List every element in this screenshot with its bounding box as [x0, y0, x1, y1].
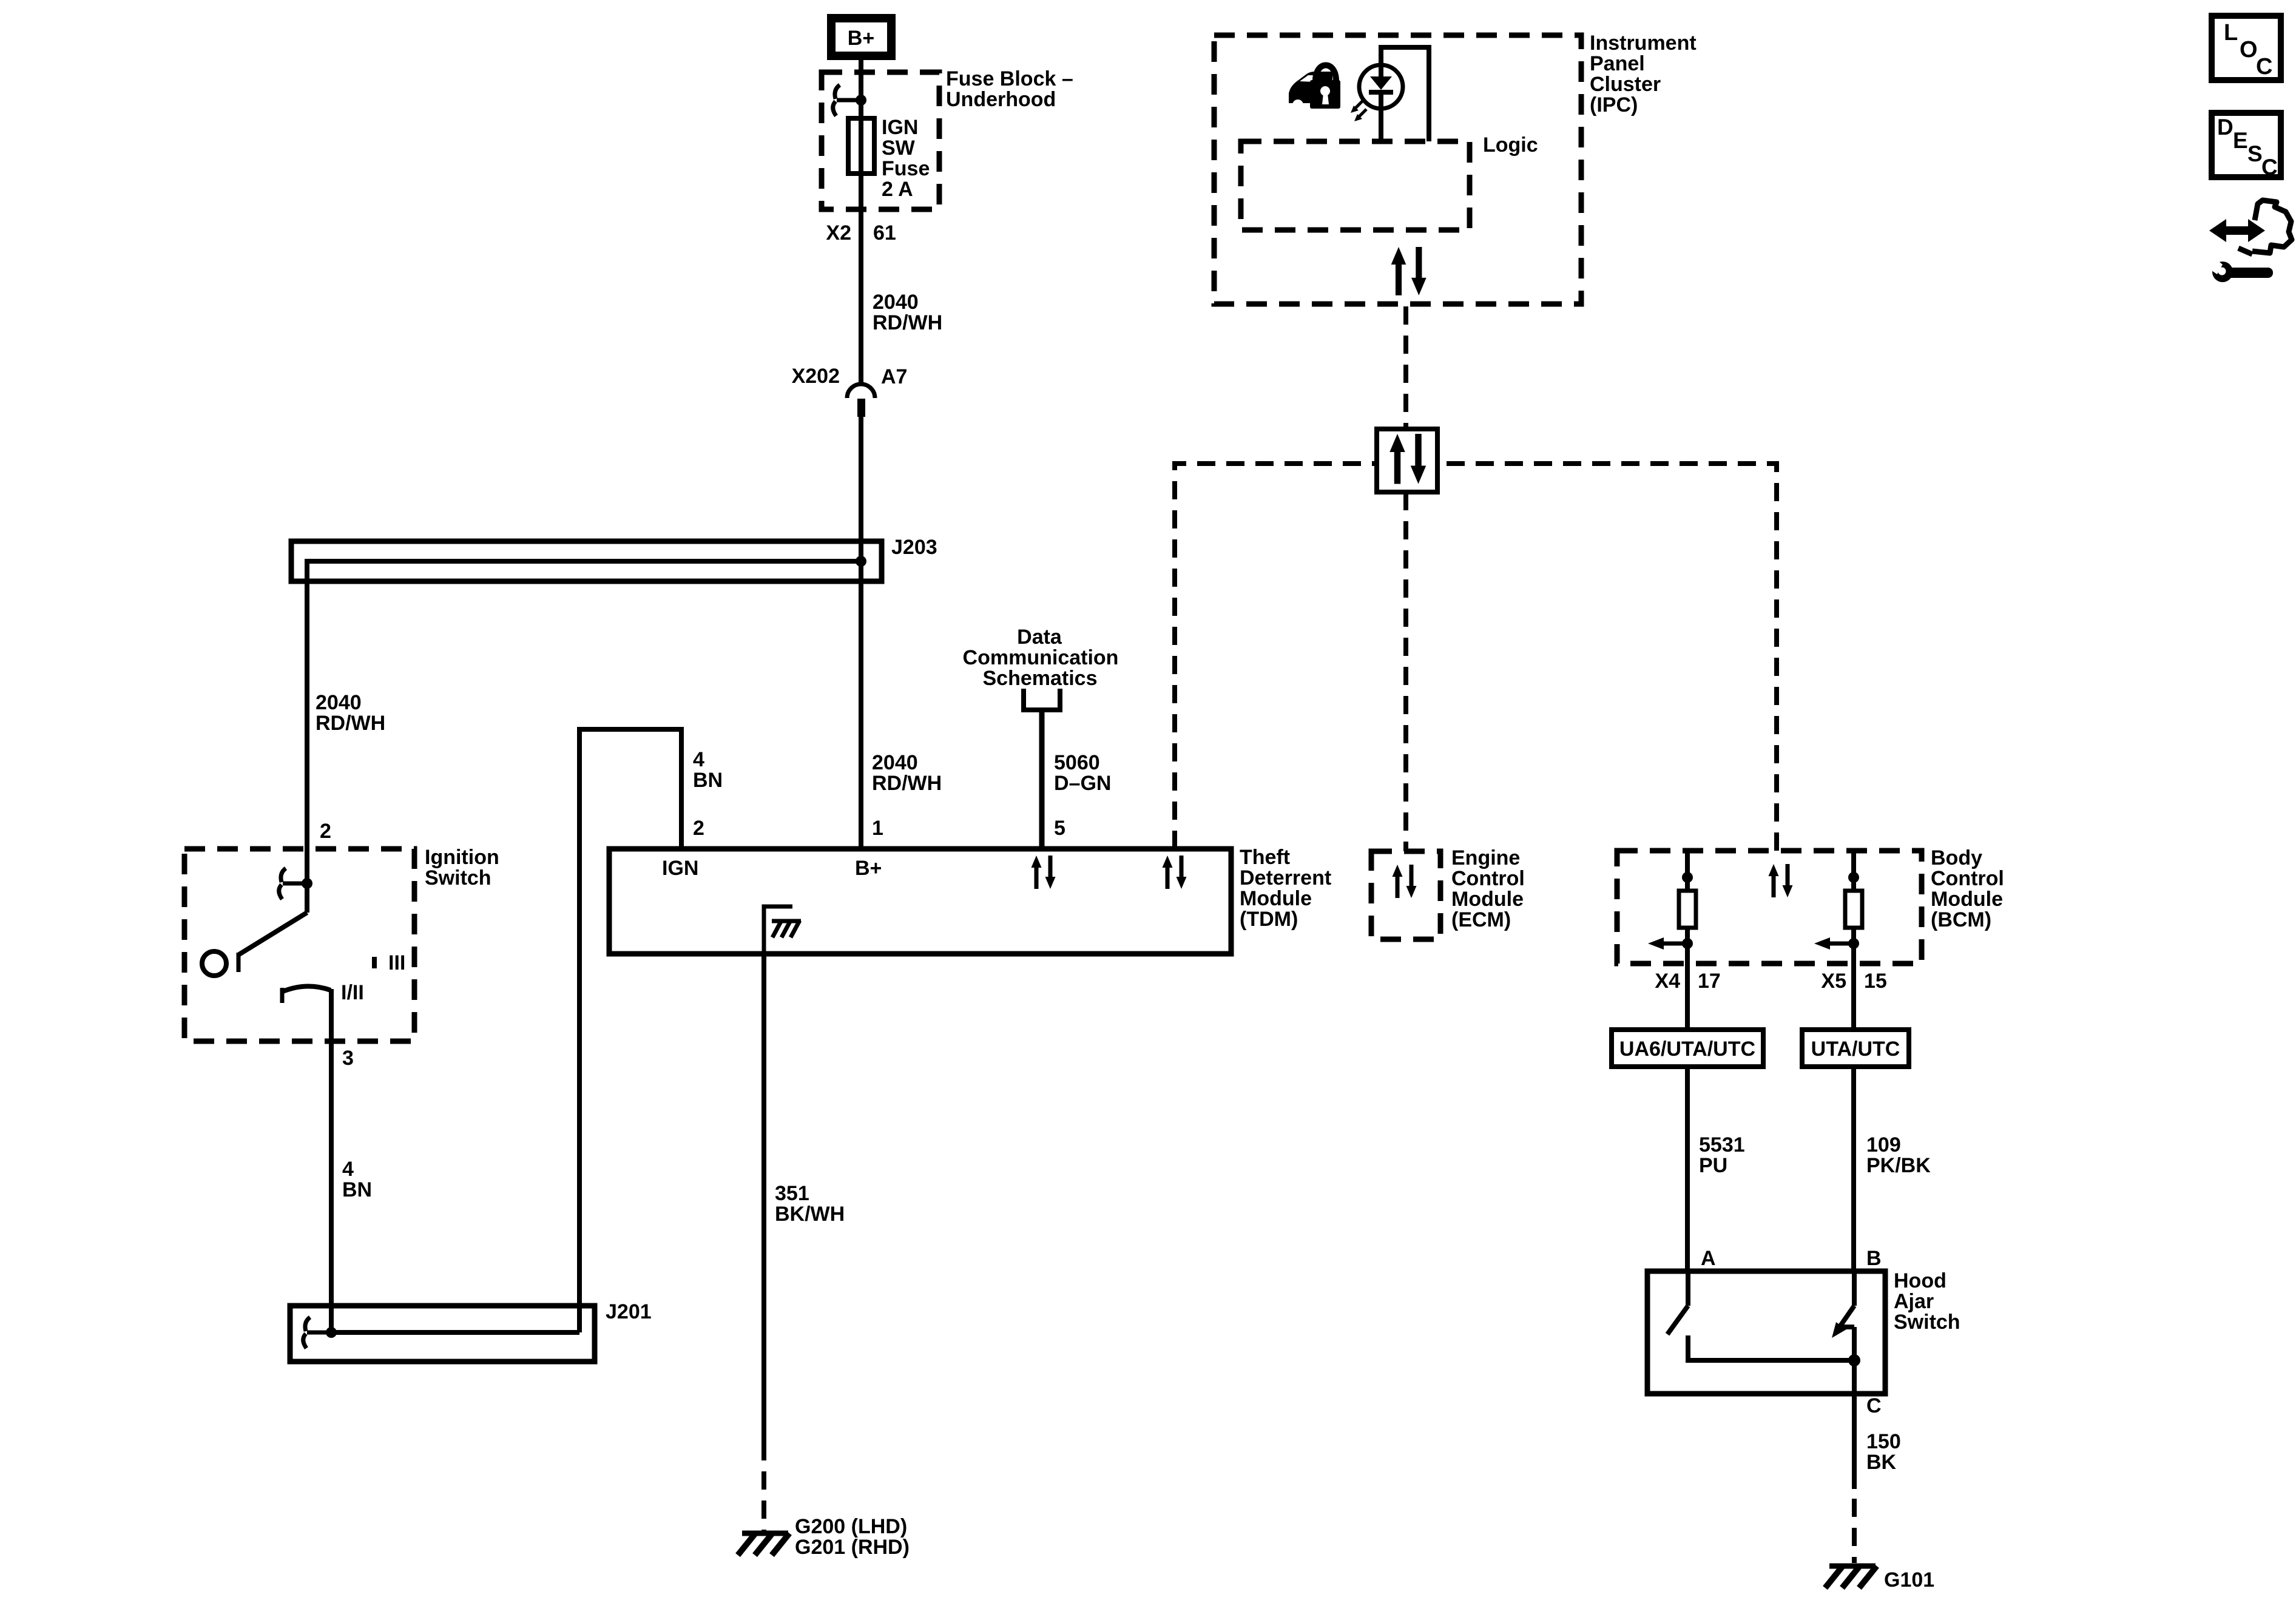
svg-text:J201: J201	[606, 1300, 652, 1323]
svg-text:RD/WH: RD/WH	[872, 772, 942, 795]
svg-text:Ajar: Ajar	[1894, 1290, 1934, 1313]
svg-text:5: 5	[1054, 817, 1065, 840]
svg-text:RD/WH: RD/WH	[316, 712, 385, 735]
svg-text:Instrument: Instrument	[1590, 32, 1697, 55]
svg-text:BN: BN	[693, 769, 723, 792]
svg-text:D–GN: D–GN	[1054, 772, 1111, 795]
svg-text:5531: 5531	[1699, 1133, 1745, 1156]
svg-text:4: 4	[693, 748, 704, 771]
svg-text:J203: J203	[891, 536, 937, 559]
svg-text:Underhood: Underhood	[946, 88, 1056, 111]
svg-text:(IPC): (IPC)	[1590, 93, 1638, 116]
svg-text:D: D	[2217, 115, 2234, 140]
svg-text:2: 2	[693, 817, 704, 840]
svg-text:Panel: Panel	[1590, 52, 1645, 75]
svg-text:Switch: Switch	[1894, 1311, 1960, 1334]
svg-text:B+: B+	[855, 857, 882, 880]
svg-text:C: C	[1866, 1394, 1882, 1417]
svg-text:L: L	[2224, 20, 2238, 46]
svg-text:5060: 5060	[1054, 751, 1100, 774]
svg-text:A: A	[1701, 1247, 1716, 1270]
svg-text:G101: G101	[1884, 1568, 1934, 1592]
svg-text:15: 15	[1864, 970, 1887, 993]
svg-text:Module: Module	[1240, 887, 1312, 910]
svg-text:Ignition: Ignition	[425, 846, 499, 869]
svg-text:3: 3	[342, 1047, 354, 1070]
svg-text:S: S	[2247, 141, 2263, 166]
svg-text:B+: B+	[848, 27, 874, 50]
svg-text:SW: SW	[882, 137, 916, 160]
svg-text:Logic: Logic	[1483, 133, 1538, 157]
svg-text:PK/BK: PK/BK	[1866, 1154, 1931, 1177]
svg-text:Control: Control	[1451, 867, 1525, 890]
svg-text:351: 351	[775, 1182, 809, 1205]
svg-text:2 A: 2 A	[882, 178, 913, 201]
svg-text:Module: Module	[1451, 888, 1524, 911]
svg-text:I/II: I/II	[341, 981, 364, 1004]
svg-text:Control: Control	[1931, 867, 2004, 890]
svg-text:Fuse Block –: Fuse Block –	[946, 67, 1073, 90]
svg-text:Deterrent: Deterrent	[1240, 866, 1331, 890]
svg-text:4: 4	[342, 1158, 354, 1181]
svg-text:X4: X4	[1655, 970, 1680, 993]
svg-text:Fuse: Fuse	[882, 157, 930, 180]
svg-text:X2: X2	[826, 221, 851, 245]
svg-text:Theft: Theft	[1240, 846, 1290, 869]
svg-text:Schematics: Schematics	[983, 667, 1098, 690]
svg-text:IGN: IGN	[882, 116, 918, 139]
svg-text:(BCM): (BCM)	[1931, 908, 1991, 931]
svg-text:2: 2	[320, 820, 331, 843]
svg-text:X5: X5	[1821, 970, 1846, 993]
svg-text:III: III	[388, 951, 405, 974]
svg-text:G200 (LHD): G200 (LHD)	[795, 1515, 907, 1538]
svg-text:17: 17	[1698, 970, 1721, 993]
svg-text:E: E	[2233, 128, 2248, 153]
svg-text:BK/WH: BK/WH	[775, 1203, 845, 1226]
svg-text:G201 (RHD): G201 (RHD)	[795, 1536, 910, 1559]
svg-text:Cluster: Cluster	[1590, 73, 1661, 96]
svg-text:109: 109	[1866, 1133, 1901, 1156]
svg-text:BN: BN	[342, 1178, 372, 1201]
svg-text:B: B	[1866, 1247, 1882, 1270]
svg-text:Communication: Communication	[963, 646, 1119, 669]
svg-text:2040: 2040	[316, 691, 362, 714]
svg-text:Switch: Switch	[425, 866, 491, 890]
svg-text:61: 61	[873, 221, 896, 245]
svg-text:1: 1	[872, 817, 883, 840]
svg-text:Body: Body	[1931, 846, 1982, 869]
svg-text:UTA/UTC: UTA/UTC	[1811, 1038, 1900, 1061]
svg-text:150: 150	[1866, 1430, 1901, 1453]
svg-text:C: C	[2256, 54, 2272, 79]
svg-text:PU: PU	[1699, 1154, 1727, 1177]
svg-text:RD/WH: RD/WH	[873, 311, 942, 334]
svg-text:C: C	[2261, 155, 2278, 180]
svg-text:2040: 2040	[873, 291, 919, 314]
svg-text:Engine: Engine	[1451, 846, 1520, 869]
svg-text:Data: Data	[1017, 626, 1062, 649]
svg-text:UA6/UTA/UTC: UA6/UTA/UTC	[1619, 1038, 1755, 1061]
svg-text:IGN: IGN	[662, 857, 698, 880]
svg-text:(TDM): (TDM)	[1240, 908, 1298, 931]
svg-text:Hood: Hood	[1894, 1269, 1947, 1292]
svg-text:(ECM): (ECM)	[1451, 908, 1511, 931]
svg-text:O: O	[2240, 37, 2258, 62]
svg-text:A7: A7	[881, 365, 907, 388]
svg-text:Module: Module	[1931, 888, 2003, 911]
svg-text:X202: X202	[792, 365, 840, 388]
svg-text:2040: 2040	[872, 751, 918, 774]
svg-text:BK: BK	[1866, 1451, 1897, 1474]
